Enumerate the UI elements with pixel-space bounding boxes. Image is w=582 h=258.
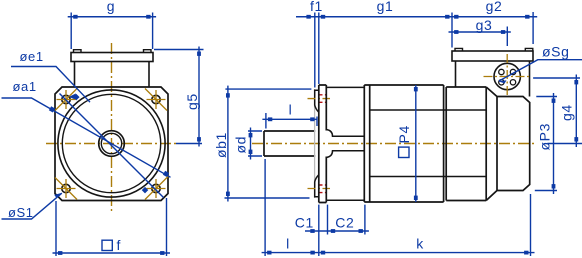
pilot collar face (gray) [314,89,316,198]
dimension P4 [415,85,417,202]
dimensions C1 C2 [305,205,369,235]
dimension oP3 [535,93,557,194]
connector housing body sides [75,62,150,88]
svg-text:g3: g3 [476,17,493,33]
svg-text:øe1: øe1 [20,49,44,64]
svg-text:ød: ød [233,136,249,154]
corner hole top-right [145,89,167,111]
screw boss top [315,90,319,112]
neck with fillets [326,130,364,158]
svg-text:g1: g1 [377,0,394,14]
dimension f1 [296,13,319,88]
centerline horizontal left view [46,143,176,145]
svg-text:C2: C2 [335,214,354,230]
dimension oa1 (pilot diameter 30deg) [2,98,171,177]
svg-text:g5: g5 [184,93,200,110]
dimensions l bottom and k [262,159,535,256]
dimension g4 [533,75,582,148]
svg-text:f1: f1 [310,0,323,14]
dimension od [248,128,262,160]
dimension g5 [154,47,204,147]
dimension ob1 [225,86,312,202]
connector end view circle [494,63,520,89]
centerline vertical left view [111,43,113,211]
shaft circle inner [101,133,121,153]
flange square outline [55,87,168,201]
connector housing tabs [74,50,152,53]
corner hole bottom-right [145,176,169,200]
dimension g2 [449,12,538,48]
connector housing (side view) cap [452,51,533,61]
dimension oe1 (bolt circle diameter 45deg) [11,67,90,103]
dimension square-f [53,198,171,256]
connector housing on flange (left view) cap [71,53,153,62]
svg-text:l: l [289,102,293,118]
svg-text:g: g [107,0,115,14]
shaft circle outer [99,131,125,157]
svg-text:P4: P4 [396,125,412,143]
dimension l top [262,113,317,129]
motor body outline [364,85,486,202]
svg-text:g2: g2 [486,0,503,14]
screw hole centerline top [308,98,331,100]
svg-text:øS1: øS1 [8,205,34,220]
body corner tangent lines [370,110,487,177]
svg-text:f: f [117,237,122,253]
screw boss bottom [315,175,319,197]
flange plate side view [319,85,327,203]
leader oS1 [2,193,62,219]
hidden screw hole lines bottom (red) [318,185,326,193]
dimension g3 [449,27,511,47]
svg-text:k: k [416,236,424,252]
dimension g1 [315,16,455,18]
connector housing tabs [455,48,533,51]
svg-text:l: l [286,236,290,252]
connector centerlines [484,76,532,78]
recessed section top and bottom edges [326,87,364,200]
rear cap [486,87,530,201]
corner hole top-left [55,89,77,111]
label square P4 [396,125,412,157]
connector pins [499,69,504,74]
main axis centerline [252,143,537,145]
pilot collar circle outer [58,90,165,197]
svg-text:g4: g4 [559,104,575,121]
svg-text:C1: C1 [295,214,314,230]
corner hole bottom-left [55,178,77,200]
leader oSg [499,60,582,81]
label square f [102,240,112,250]
hidden screw hole lines top (red) [318,95,326,103]
svg-text:øSg: øSg [542,44,569,60]
pilot collar circle inner [62,94,160,192]
screw hole centerline bottom [308,188,331,190]
svg-text:øP3: øP3 [537,123,553,150]
shaft side view [264,131,315,156]
svg-text:øb1: øb1 [213,132,229,158]
svg-text:øa1: øa1 [13,79,37,94]
connector housing body sides [456,61,530,97]
dimension g [68,13,156,50]
